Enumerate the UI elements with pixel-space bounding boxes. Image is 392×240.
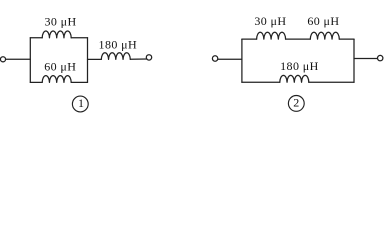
svg-text:30 μH: 30 μH <box>254 14 286 28</box>
svg-text:60 μH: 60 μH <box>44 59 76 73</box>
svg-text:180 μH: 180 μH <box>280 59 319 73</box>
svg-text:60 μH: 60 μH <box>307 14 339 28</box>
svg-text:1: 1 <box>78 96 84 110</box>
svg-text:30 μH: 30 μH <box>44 15 76 29</box>
svg-text:2: 2 <box>293 95 299 109</box>
svg-text:180 μH: 180 μH <box>99 37 138 51</box>
